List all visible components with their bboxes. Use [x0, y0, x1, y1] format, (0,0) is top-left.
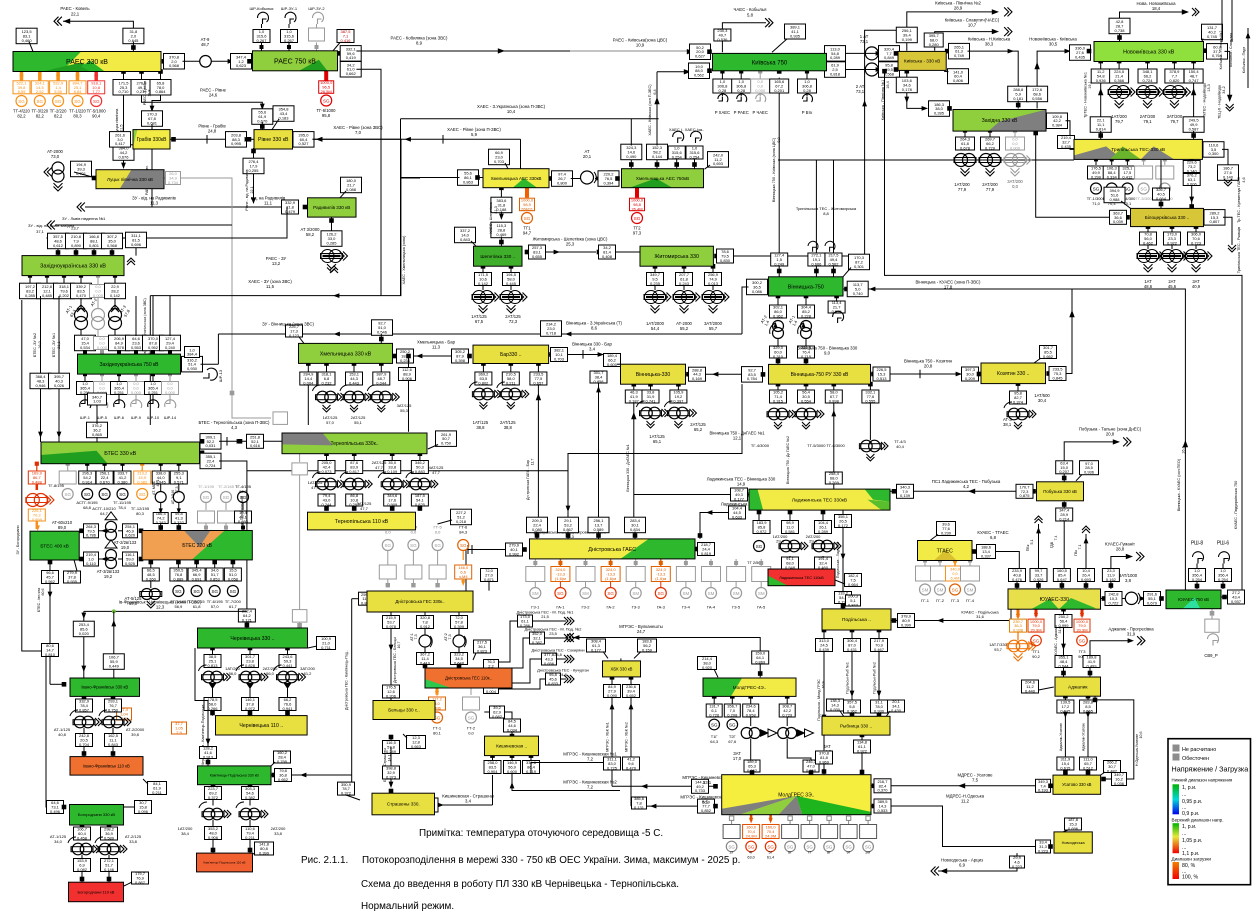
wire: [169, 374, 171, 381]
label box 1АТ/125 Шеп: [475, 272, 492, 286]
svg-text:0,696: 0,696: [1068, 826, 1079, 831]
node ТГ-4/300: [1125, 157, 1129, 161]
svg-text:0,958: 0,958: [746, 712, 757, 717]
transformer 3АТ/125 Тернопільська: [382, 478, 394, 490]
svg-text:0,534: 0,534: [80, 345, 91, 350]
svg-text:0,930: 0,930: [187, 366, 198, 371]
svg-text:20,9М: 20,9М: [1030, 627, 1041, 632]
svg-text:24,8: 24,8: [559, 672, 567, 677]
svg-text:SG: SG: [211, 589, 218, 594]
svg-text:8Г: 8Г: [827, 851, 831, 855]
wire: [1222, 564, 1224, 569]
wire Ладижинська-Подільська: [842, 510, 844, 609]
svg-text:0,819: 0,819: [701, 551, 712, 556]
wire РАЕС330-750 coupling: [162, 59, 167, 64]
coupler АТ:2: [458, 629, 460, 636]
wire ЗУ330 top stub: [93, 249, 95, 256]
transformer 3АТ/2000 Житомирська: [702, 291, 729, 314]
label box Козятин r: [1049, 367, 1066, 381]
wire РАЕС-Ковель: [63, 21, 133, 30]
label box Терн2 3АТ/125: [384, 493, 401, 507]
label box 2Подільськ-Рыб №2: [871, 700, 888, 714]
wire: [63, 276, 65, 284]
bus Козятин 330: [981, 363, 1046, 384]
svg-text:0,211: 0,211: [506, 380, 516, 385]
svg-text:0,740: 0,740: [853, 291, 864, 296]
label box ЖШ2: [599, 245, 616, 259]
svg-text:0,662: 0,662: [1043, 354, 1054, 359]
svg-text:38,8: 38,8: [476, 425, 485, 430]
label box АТ-2000 Жит: [676, 272, 693, 286]
node БТЕС gen 160.7: [159, 462, 163, 466]
label box ДнГЕС330 l: [359, 592, 374, 606]
svg-text:Р Бтк: Р Бтк: [802, 110, 813, 115]
label box ЗУ330 bot 5: [105, 283, 126, 299]
wire slant Ново: [1063, 830, 1068, 832]
label box ТГАЕС g2: [946, 566, 965, 581]
svg-text:Примітка: температура оточуючо: Примітка: температура оточуючого середов…: [419, 828, 663, 839]
wire: [1118, 61, 1120, 69]
wire: [1195, 245, 1197, 249]
wire Західна-Білоцерківська: [1036, 131, 1125, 218]
wire Побузька-КУВГ: [1062, 502, 1067, 507]
svg-text:Дністровська ГЕС 110к..: Дністровська ГЕС 110к..: [445, 676, 492, 681]
node Терн 2АТ/125: [352, 451, 357, 456]
label box 2Аджалик-Усатове №1: [1057, 757, 1074, 771]
wire ХБК2 down: [630, 770, 632, 806]
svg-text:Хмельницька АЕС 330кВ: Хмельницька АЕС 330кВ: [491, 176, 542, 181]
node Р ЧАЕС: [758, 69, 762, 73]
bus Ладижинська ТЕС 330 кВ: [749, 489, 890, 510]
node ГАЕС ГЗ-1: [533, 561, 537, 565]
gen circle ТГ1 ХАЕС: [522, 213, 533, 224]
svg-text:4Г: 4Г: [749, 851, 753, 855]
transformer 1АТ/125 Шепетівка: [472, 291, 499, 314]
svg-text:Тернопільська 330к..: Тернопільська 330к..: [330, 441, 378, 447]
svg-text:47,7: 47,7: [311, 485, 320, 490]
label box Черн t1: [238, 609, 255, 623]
svg-text:0,000: 0,000: [131, 390, 142, 395]
node ШР-5: [100, 372, 104, 376]
transformer 4АТ: [778, 728, 789, 739]
wire: [114, 276, 116, 284]
label box МГРЕС4 Т2Г: [724, 704, 740, 718]
svg-text:0,334: 0,334: [1107, 174, 1118, 179]
svg-text:0,936: 0,936: [1096, 78, 1107, 83]
svg-text:SG: SG: [756, 544, 763, 549]
svg-text:55,7: 55,7: [709, 326, 718, 331]
generator ТГ1 ХАЕС330: [525, 188, 529, 198]
svg-text:SG: SG: [634, 216, 641, 221]
bus Побузька 330 кВ: [1037, 482, 1084, 501]
gen circle ГТ-6: [458, 540, 469, 551]
transformer АТ БТЕС 160.7: [155, 492, 166, 503]
label box БарТерн: [399, 367, 416, 381]
label box Бар 2АТ/125: [502, 372, 519, 386]
label box Лад 2АТ/200: [815, 520, 832, 534]
svg-text:62,7: 62,7: [239, 489, 248, 494]
label box НовК b1147.5: [1138, 69, 1157, 83]
svg-text:SG: SG: [139, 492, 146, 497]
reactor Він750 b3: [834, 294, 839, 299]
wire slant: [473, 653, 476, 660]
wire Київська750-330 0: [824, 51, 829, 56]
svg-text:SM: SM: [758, 591, 765, 596]
svg-text:СВ9_Р: СВ9_Р: [1204, 653, 1217, 658]
wire gray down: [299, 475, 301, 619]
svg-text:47,7: 47,7: [432, 470, 441, 475]
svg-text:0,703: 0,703: [494, 159, 505, 164]
svg-text:ТЕЦ-6 - Недайвода: ТЕЦ-6 - Недайвода: [1218, 84, 1222, 119]
node БТЕС gen 142.2: [140, 462, 144, 466]
svg-text:0,853: 0,853: [210, 576, 221, 581]
label box Радивилів tr: [341, 177, 362, 193]
svg-text:55,2: 55,2: [680, 326, 689, 331]
svg-text:0,513: 0,513: [876, 376, 887, 381]
label box ТГ1 КУВГ: [1028, 619, 1044, 633]
label box ТГ-4/220: [13, 81, 30, 95]
wire: [1193, 61, 1195, 69]
svg-text:0,223: 0,223: [1012, 864, 1023, 869]
svg-text:8,5: 8,5: [702, 800, 709, 805]
label box ХАЕС (за..: [686, 146, 703, 160]
svg-text:0,28: 0,28: [719, 88, 728, 93]
svg-text:0,978: 0,978: [386, 624, 397, 629]
svg-text:0,738: 0,738: [1114, 28, 1125, 33]
bus Рівне 330 кВ: [254, 130, 293, 149]
node under РАЕС 330: [158, 69, 163, 74]
label box Він750 b2806: [798, 345, 815, 359]
svg-text:ЧАЕС - Кобылья: ЧАЕС - Кобылья: [733, 7, 767, 12]
wire: [1171, 245, 1173, 249]
wire ЗУ-Вінницька long: [218, 333, 742, 335]
svg-text:0,139: 0,139: [900, 493, 911, 498]
svg-text:0,223: 0,223: [1038, 848, 1049, 853]
svg-text:0,337: 0,337: [981, 553, 992, 558]
svg-text:ТкТЕС - Недайвода: ТкТЕС - Недайвода: [1203, 82, 1207, 117]
svg-text:61,7: 61,7: [229, 604, 238, 609]
node Р ХАЕС: [720, 69, 724, 73]
svg-text:6,59: 6,59: [18, 89, 27, 94]
svg-text:0,843: 0,843: [848, 602, 859, 607]
label box ТГ-4/195: [235, 510, 252, 524]
wire under Радивилів: [331, 217, 333, 232]
svg-text:0,655: 0,655: [532, 254, 543, 259]
label box ХБК t2: [638, 639, 657, 653]
svg-text:ШР-10: ШР-10: [147, 415, 160, 420]
svg-text:78,4: 78,4: [118, 505, 127, 510]
svg-text:ТГ-4/3000: ТГ-4/3000: [751, 443, 770, 448]
svg-text:0,144: 0,144: [652, 154, 663, 159]
svg-text:8,6: 8,6: [591, 326, 598, 331]
svg-text:0,000: 0,000: [1010, 145, 1021, 150]
svg-text:0,110: 0,110: [86, 561, 96, 566]
transformer АТ-2000 Луцьк: [52, 162, 64, 174]
reactor ШР-13: [207, 368, 217, 380]
label box Бц t: [1153, 187, 1170, 201]
wire Подільська-МГРЭС: [822, 628, 827, 633]
svg-text:1,03: 1,03: [93, 399, 102, 404]
svg-text:10,7: 10,7: [968, 23, 977, 28]
svg-text:0,9 р.и.: 0,9 р.и.: [1182, 811, 1199, 817]
svg-text:82,2: 82,2: [17, 114, 26, 119]
node Хмельницька b 381.3: [379, 361, 384, 366]
wire: [740, 71, 742, 79]
gen circle 10Г: [863, 841, 874, 852]
svg-text:0,633: 0,633: [732, 514, 743, 519]
transformer АТ-1/125 Богородчани: [72, 843, 84, 855]
wire stub: [135, 350, 137, 354]
wire Черн-КП: [207, 701, 209, 766]
svg-text:0,443: 0,443: [349, 380, 360, 385]
node БТЕС gen 178.8: [177, 462, 181, 466]
label box РШ-6: [1215, 568, 1232, 582]
node НовК bottom: [1098, 59, 1103, 64]
node КП 2АТ/200: [248, 782, 253, 787]
svg-text:0,088: 0,088: [346, 187, 357, 192]
label box ЗУ330 top 0: [48, 233, 69, 249]
label box ШР-9: [128, 381, 145, 395]
wire: [789, 556, 791, 558]
label box ІФ t2: [103, 654, 124, 670]
label box КП2 1АТ/200: [205, 826, 222, 840]
wire Рівне-Грабів: [170, 138, 227, 140]
wire Козятин bottom: [1016, 381, 1021, 386]
label box ХБК 631: [623, 684, 640, 698]
label box ВінКУ: [847, 281, 868, 297]
bus Луцьк північна 330 кВ: [96, 170, 164, 189]
label box Рівне-Радивилів: [243, 158, 264, 174]
svg-text:0,749: 0,749: [954, 53, 965, 58]
svg-text:56,0: 56,0: [266, 671, 275, 676]
bus Дністровська ГАЕС: [530, 539, 696, 559]
svg-text:ГА-5: ГА-5: [757, 605, 766, 610]
svg-text:20,9М: 20,9М: [1076, 627, 1087, 632]
svg-text:0,946: 0,946: [35, 383, 46, 388]
bus Хмельницька АЕС 330 кВ: [483, 169, 549, 188]
svg-text:0,235: 0,235: [650, 281, 661, 286]
svg-text:0,412: 0,412: [1122, 174, 1133, 179]
label box КНК: [1008, 86, 1029, 102]
wire Білоцерківська right: [1204, 215, 1209, 220]
wire БТЕС top stub: [96, 405, 98, 424]
label box Аджалик-Усатове №1: [1057, 700, 1074, 714]
svg-text:0,177: 0,177: [591, 647, 602, 652]
label box Черн 3АТ/200: [279, 654, 296, 668]
svg-text:7,77: 7,77: [92, 89, 101, 94]
bus ЮУАЕС-750 кВ: [1166, 590, 1221, 609]
label box МК2b: [632, 796, 647, 810]
svg-text:Ладижинська ТЕС 330кВ: Ладижинська ТЕС 330кВ: [792, 497, 847, 503]
gen circle ТГ-3/195: [173, 586, 184, 597]
transformer 1АТ/2000 Житомирська: [644, 291, 671, 314]
node Терн 3АТ/125: [390, 451, 395, 456]
wire Вінницька330-РУ: [686, 372, 691, 377]
svg-text:65,2: 65,2: [694, 427, 703, 432]
transformer 1АТ/200 НовК: [1108, 86, 1135, 109]
reactor РШ-8: [1193, 552, 1204, 561]
gen circle БТЕС 122.5: [117, 489, 128, 500]
transformer АТ-2/2000 ІФ: [103, 716, 115, 728]
label box ІФ o1: [117, 707, 132, 721]
label box ШР-14: [162, 381, 179, 395]
bus Івано-Франківськ 330 кВ: [70, 678, 140, 696]
wire stub: [118, 350, 120, 354]
wire ГЕС-Страшены vertical: [351, 599, 353, 782]
wire ЗАТ column: [748, 694, 753, 699]
svg-text:0,260: 0,260: [146, 576, 157, 581]
svg-text:8,84: 8,84: [74, 89, 83, 94]
label box ХАЕС-Шеп1: [491, 197, 512, 213]
svg-text:0,913: 0,913: [203, 754, 214, 759]
bus Новокиївська 330 кВ: [1094, 42, 1204, 62]
svg-text:МолдГРЕС 3Э..: МолдГРЕС 3Э..: [778, 793, 814, 799]
transformer 1АТ/125 Тернопільська: [317, 478, 329, 490]
svg-text:7,1: 7,1: [1078, 545, 1082, 550]
svg-text:ГЗ-2: ГЗ-2: [581, 605, 590, 610]
label box Зах in: [929, 101, 950, 117]
svg-text:12,3: 12,3: [156, 605, 165, 610]
svg-text:ТГ-5/3000 ТГ-6/3000: ТГ-5/3000 ТГ-6/3000: [807, 443, 845, 448]
transformer 1АТ/200 Чернівецька: [203, 671, 215, 683]
x: [484, 659, 499, 673]
svg-text:0,952: 0,952: [148, 345, 159, 350]
svg-text:384,4: 384,4: [187, 352, 198, 357]
label box БТЕС right2: [200, 453, 221, 469]
svg-text:0,536: 0,536: [717, 37, 728, 42]
transformer АТ-3/2000 Радивилів: [321, 250, 348, 273]
wire Трипільська-Білоцерківська: [1191, 159, 1193, 205]
label box Побузька tr: [1080, 461, 1099, 475]
node Терн 1АТ/125: [324, 451, 329, 456]
svg-text:0,941: 0,941: [282, 706, 293, 711]
label box Терн 2АТ/125: [346, 460, 363, 474]
svg-text:0,904: 0,904: [487, 769, 498, 774]
svg-text:0,214: 0,214: [1059, 516, 1070, 521]
svg-text:16,6: 16,6: [1182, 446, 1186, 453]
svg-text:SG: SG: [434, 543, 441, 548]
bus Подільська: [822, 609, 891, 630]
gen circle ТГ-7/200: [227, 586, 238, 597]
wire ДнГАЕС-Вінницька330 line2: [598, 382, 600, 519]
wire Грабів down: [151, 149, 153, 207]
transformer 1АТ/125 Хмельницька: [317, 391, 329, 403]
wire РАЕС-Київська: [356, 50, 570, 52]
svg-text:79,7: 79,7: [1170, 119, 1179, 124]
label box ГАЕС t4: [588, 517, 609, 533]
svg-text:0,266: 0,266: [207, 706, 218, 711]
wire: [683, 286, 685, 291]
wire БТЕС-ЗУ №2: [40, 296, 42, 442]
svg-text:48,7: 48,7: [201, 42, 210, 47]
generator ТГ-6/1000 РАЕС750: [324, 71, 328, 81]
svg-text:0,230: 0,230: [941, 530, 952, 535]
svg-text:20,8: 20,8: [1106, 432, 1115, 437]
svg-text:0,725: 0,725: [607, 765, 618, 770]
label box РМ: [854, 740, 871, 754]
label box БТЕС-Терн: [247, 434, 264, 448]
bus ХБК 330 кВ: [603, 661, 641, 677]
wire Ладижинська-Побузька: [1031, 489, 1036, 494]
svg-text:0,733: 0,733: [695, 788, 706, 793]
label box ВРУ1: [689, 367, 706, 381]
gen circle ГЗ-2: [585, 582, 587, 588]
gen circle Т1Г: [709, 719, 720, 730]
label box Бц l: [1110, 210, 1127, 224]
svg-text:Аджалик-Усатове: Аджалик-Усатове: [1059, 723, 1063, 751]
label box Лад110 r: [845, 573, 862, 587]
svg-text:37,1: 37,1: [36, 229, 45, 234]
svg-text:31,9: 31,9: [1127, 632, 1136, 637]
wire ХАЕС750 to ЗУ line: [630, 159, 632, 169]
svg-text:Рыбница 330 ..: Рыбница 330 ..: [840, 723, 872, 728]
gen circle ГА-1: [559, 582, 561, 588]
svg-text:22,1: 22,1: [71, 12, 80, 17]
svg-text:0,657: 0,657: [533, 380, 544, 385]
svg-text:Подільська - Молд.ГРЭС: Подільська - Молд.ГРЭС: [817, 679, 821, 721]
svg-text:0,28: 0,28: [803, 88, 812, 93]
svg-text:0,553: 0,553: [131, 345, 142, 350]
wire Рыбница-МГРЭС: [860, 733, 865, 738]
wire: [212, 683, 214, 698]
svg-text:11,1: 11,1: [264, 201, 273, 206]
svg-text:0,159: 0,159: [642, 647, 653, 652]
svg-text:0,678: 0,678: [960, 145, 971, 150]
svg-text:0,998: 0,998: [829, 398, 840, 403]
svg-text:ШР-ЗУ-2: ШР-ЗУ-2: [308, 6, 325, 11]
svg-text:0,470: 0,470: [626, 765, 637, 770]
label box КУАдж1: [1055, 614, 1072, 628]
label box КУАдж2: [1055, 655, 1072, 669]
wire slant Рыбница r: [886, 711, 890, 717]
label box Терн2 2АТ/125: [346, 493, 363, 507]
svg-text:17,0: 17,0: [733, 756, 742, 761]
label box Подільськ-Рыб №1: [844, 638, 861, 652]
node under РАЕС 330: [121, 69, 126, 74]
wire Аджалик-Усатове №1: [1063, 694, 1068, 699]
node 2АТ/125: [509, 264, 514, 269]
label box ДнГЕС-ГАЕС: [506, 543, 523, 557]
node ШР-1: [83, 372, 87, 376]
wire Подільська-КУАЕС: [892, 618, 897, 623]
svg-text:ШР-9: ШР-9: [131, 415, 142, 420]
svg-text:0,142: 0,142: [110, 293, 121, 298]
svg-text:МГРЭС - ХБК №2: МГРЭС - ХБК №2: [625, 722, 629, 751]
transformer 3АТ/200 Чернівецька: [278, 671, 290, 683]
wire ТрТЕС right col: [1193, 83, 1195, 118]
svg-text:0,801: 0,801: [89, 243, 100, 248]
wire Новокиївська right: [1204, 48, 1209, 53]
svg-text:17,8: 17,8: [944, 285, 953, 290]
wire into Західна: [1017, 101, 1019, 109]
label box В330 b1: [625, 390, 642, 404]
bus Трипільська ТЕС-330 кВ: [1074, 139, 1202, 159]
svg-text:ГГ-4: ГГ-4: [966, 598, 975, 603]
wire: [694, 159, 696, 169]
svg-text:90,2: 90,2: [1032, 654, 1041, 659]
label box c2 530.8: [123, 524, 138, 538]
label box Грабів left: [110, 132, 131, 148]
svg-text:0,676: 0,676: [118, 154, 129, 159]
node Лад 2АТ/200: [821, 510, 826, 515]
wire ХБК cols: [610, 675, 615, 680]
wire Трипільська right: [1203, 147, 1208, 152]
label box ПМ1: [816, 638, 833, 652]
label box K330 l1: [879, 62, 900, 78]
wire ray Дністровська ГЕС - М. Под. №2: [498, 638, 566, 668]
wire riser Кишиневская: [492, 775, 494, 805]
svg-text:Бар330 ..: Бар330 ..: [500, 352, 521, 358]
